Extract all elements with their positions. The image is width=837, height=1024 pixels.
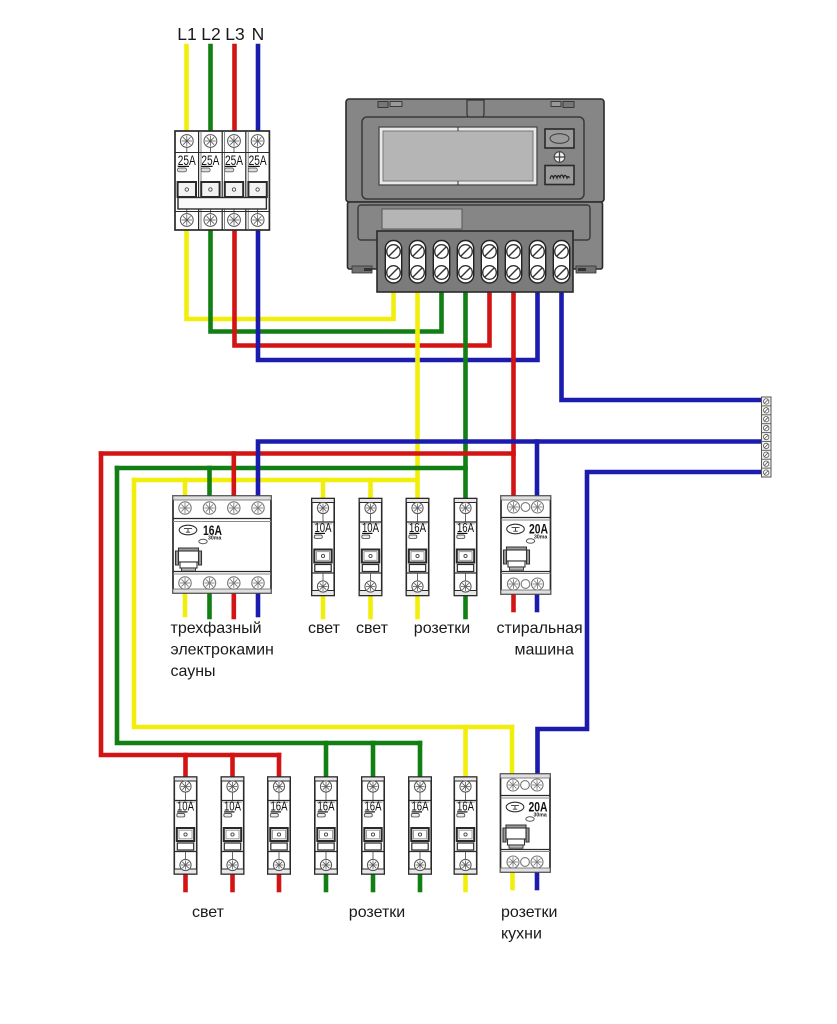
breaker SF3: 16A (sockets) (406, 499, 428, 596)
label: light 2 (356, 620, 389, 637)
svg-text:16A: 16A (365, 799, 382, 814)
svg-text:10A: 10A (177, 799, 194, 814)
breaker SF2: 10A (light 2) (359, 499, 381, 596)
node L2 label (201, 24, 220, 44)
svg-text:розетки: розетки (414, 620, 470, 637)
svg-text:L1: L1 (177, 24, 196, 44)
breaker SF5: 10A (light) (174, 777, 196, 874)
svg-text:L2: L2 (201, 24, 220, 44)
svg-text:L3: L3 (225, 24, 244, 44)
wire RCD1 output stubs (185, 593, 258, 617)
wire middle breaker output stubs (323, 595, 466, 617)
neutral terminal strip N (DIN bus) (762, 397, 772, 477)
svg-text:10A: 10A (362, 520, 379, 535)
svg-text:16A: 16A (457, 520, 474, 535)
RCD U2: 2-pole 20A 30mA (washing machine) (501, 496, 551, 594)
svg-text:стиральная: стиральная (497, 620, 583, 637)
svg-text:16A: 16A (409, 520, 426, 535)
node N label (252, 24, 265, 44)
svg-text:25A: 25A (249, 152, 267, 168)
wire phase C bus (red): meter T6 down, bus y=452, left drop to lower row (101, 288, 514, 777)
svg-text:16A: 16A (457, 799, 474, 814)
label: light 1 (308, 620, 341, 637)
label: sockets (middle) (414, 620, 470, 637)
svg-text:розетки: розетки (349, 904, 405, 921)
wire N breaker-to-meter (blue) (258, 230, 538, 360)
svg-text:трехфазный: трехфазный (171, 620, 262, 637)
svg-text:16A: 16A (412, 799, 429, 814)
svg-text:25A: 25A (225, 152, 243, 168)
svg-text:кухни: кухни (501, 926, 542, 943)
svg-text:30ma: 30ma (208, 536, 221, 542)
wire bottom breaker output stubs (186, 874, 466, 890)
svg-text:свет: свет (192, 904, 225, 921)
RCD U1: 4-pole 16A 30mA (sauna heater) (173, 496, 271, 593)
breaker SF6: 10A (light) (221, 777, 243, 874)
svg-text:10A: 10A (224, 799, 241, 814)
wire L3 breaker-to-meter (red) (235, 230, 490, 346)
svg-text:электрокамин: электрокамин (171, 642, 274, 659)
svg-text:N: N (252, 24, 265, 44)
svg-text:25A: 25A (201, 152, 219, 168)
label: washing machine (497, 620, 583, 659)
svg-text:розетки: розетки (501, 904, 557, 921)
label: sockets (bottom) (349, 904, 405, 921)
wire L1 breaker-to-meter (yellow) (187, 230, 394, 319)
meter terminal block (8 terminals) (377, 231, 573, 292)
wire neutral strip to kitchen RCD (blue) (538, 472, 764, 775)
svg-text:сауны: сауны (171, 663, 216, 680)
svg-text:свет: свет (308, 620, 341, 637)
node L3 label (225, 24, 244, 44)
breaker SF7: 16A (light) (268, 777, 290, 874)
svg-text:10A: 10A (315, 520, 332, 535)
RCD U3: 2-pole 20A 30mA (kitchen sockets) (501, 774, 551, 872)
breaker SF9: 16A (sockets) (362, 777, 384, 874)
circuit breaker QF1: 4-pole main breaker 4x25A (175, 131, 269, 230)
wire L3 feed (red) (232, 46, 237, 131)
wire L1 feed (yellow) (184, 46, 189, 131)
wire neutral strip to middle-row RCDs (blue) (258, 442, 763, 498)
wire L2 feed (green) (208, 46, 213, 131)
breaker SF11: 16A (kitchen) (454, 777, 476, 874)
wire RCD2 output stubs (514, 594, 538, 610)
breaker SF8: 16A (sockets) (315, 777, 337, 874)
svg-text:16A: 16A (318, 799, 335, 814)
breaker SF4: 16A (sockets) (454, 499, 476, 596)
breaker SF10: 16A (sockets) (409, 777, 431, 874)
wire phase B bus (green): meter T4 down, bus y=467, left drop to lower row (117, 288, 466, 777)
node L1 label (177, 24, 196, 44)
svg-text:свет: свет (356, 620, 389, 637)
svg-text:16A: 16A (271, 799, 288, 814)
wire L2 breaker-to-meter (green) (211, 230, 442, 332)
wire N feed (blue) (256, 46, 261, 131)
wire phase A bus (yellow): meter T2 down, bus y=482, left drop to lower row (134, 288, 512, 777)
electricity meter M1 (3-phase kWh meter) (346, 99, 604, 273)
wire kitchen RCD output stubs (513, 872, 538, 888)
label: light (bottom) (192, 904, 225, 921)
svg-text:машина: машина (515, 642, 575, 659)
breaker SF1: 10A (light 1) (312, 499, 334, 596)
svg-text:25A: 25A (178, 152, 196, 168)
svg-text:30ma: 30ma (534, 813, 547, 819)
label: sauna heater (171, 620, 274, 680)
label: kitchen sockets (501, 904, 557, 943)
svg-text:30ma: 30ma (534, 535, 547, 541)
wire neutral from meter T8 to N terminal strip (blue) (562, 288, 764, 400)
